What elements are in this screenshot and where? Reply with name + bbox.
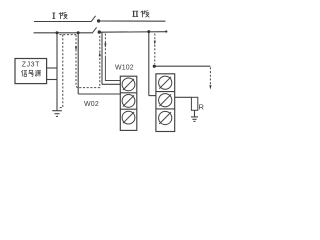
- svg-text:ZJ3T: ZJ3T: [22, 61, 40, 68]
- svg-text:W102: W102: [115, 64, 134, 71]
- svg-text:R: R: [199, 103, 205, 112]
- svg-text:W02: W02: [84, 101, 99, 108]
